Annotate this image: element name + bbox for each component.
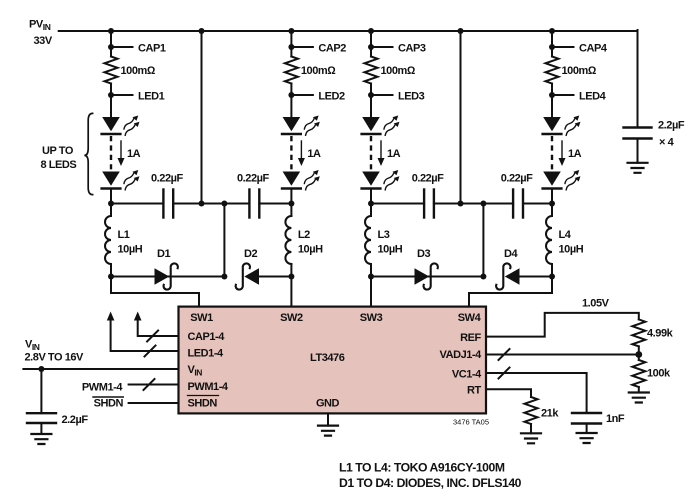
resistor R7 21k (525, 397, 560, 433)
LED string ch3 bottom (362, 168, 402, 191)
capacitor C4 0.22uF (501, 173, 533, 218)
capacitor C5 1nF (572, 413, 625, 433)
svg-text:L3: L3 (378, 229, 390, 241)
svg-text:1A: 1A (307, 148, 321, 160)
svg-text:SHDN: SHDN (94, 397, 124, 409)
junction cap row branch-left (221, 201, 227, 207)
svg-text:2.8V TO 16V: 2.8V TO 16V (25, 352, 85, 364)
node SW3 junction (368, 274, 374, 280)
wire branch left vertical (223, 204, 225, 277)
wire branch right vertical (482, 204, 484, 277)
svg-text:33V: 33V (34, 35, 53, 47)
svg-text:CAP3: CAP3 (398, 43, 426, 55)
wire ch1 column (110, 31, 112, 57)
svg-text:PWM1-4: PWM1-4 (188, 381, 229, 393)
wire ch4 column (551, 31, 553, 57)
wire VIN input (23, 368, 178, 370)
svg-text:LED4: LED4 (579, 91, 607, 103)
svg-text:LED1-4: LED1-4 (188, 348, 225, 360)
node VIN label (25, 339, 85, 364)
svg-text:L1 TO L4: TOKO A916CY-100M: L1 TO L4: TOKO A916CY-100M (339, 461, 505, 475)
wire SHDN input (93, 397, 179, 409)
wire REF to divider (486, 298, 639, 337)
node PVIN label (29, 19, 53, 48)
capacitor C2 0.22uF (237, 173, 269, 218)
svg-text:SW4: SW4 (458, 312, 482, 324)
LED string ch2 bottom (282, 168, 322, 191)
wire CAP1-4 bus (134, 312, 179, 342)
svg-text:D4: D4 (504, 248, 518, 260)
node SW2 junction (288, 274, 294, 280)
wire SW4 connection (469, 277, 552, 308)
svg-text:0.22µF: 0.22µF (151, 173, 183, 185)
node LED2 (288, 91, 345, 103)
junction rail feed-left (199, 28, 205, 34)
svg-text:100mΩ: 100mΩ (301, 65, 336, 77)
svg-text:8 LEDS: 8 LEDS (41, 159, 77, 171)
wire LED1-4 bus (107, 312, 179, 357)
ground 1nF (577, 433, 597, 443)
node LED4 (549, 91, 607, 103)
svg-text:LED1: LED1 (138, 91, 165, 103)
wire ch1 to cap row (110, 191, 112, 204)
wire RT (486, 389, 531, 397)
svg-text:RT: RT (467, 385, 481, 397)
junction cap row branch-right (480, 201, 486, 207)
ground 21k (521, 433, 541, 443)
diode D3 (415, 248, 438, 290)
svg-text:SHDN: SHDN (188, 398, 218, 410)
ground 100k (629, 393, 649, 403)
svg-text:1nF: 1nF (606, 413, 625, 425)
inductor L1 10uH (105, 204, 143, 277)
capacitor CIN 2.2uF x4 (624, 120, 685, 163)
resistor R5 4.99k (632, 319, 673, 354)
svg-text:SW2: SW2 (280, 312, 303, 324)
wire cap row left a (111, 203, 163, 205)
svg-text:L2: L2 (298, 229, 310, 241)
resistor R4 100mohm (546, 57, 597, 84)
wire VADJ1-4 (486, 349, 639, 360)
wire PVIN top rail (59, 30, 638, 32)
current arrow 1A ch4 (559, 141, 582, 166)
wire diode row left (111, 276, 224, 278)
inductor L3 10uH (365, 204, 403, 277)
svg-text:L4: L4 (559, 229, 572, 241)
svg-text:CAP1-4: CAP1-4 (188, 331, 226, 343)
wire diode row right (371, 276, 483, 278)
wire feed right vertical (460, 31, 462, 204)
wire ch2 dashed (290, 136, 292, 170)
svg-text:0.22µF: 0.22µF (412, 173, 444, 185)
svg-text:× 4: × 4 (659, 137, 675, 149)
node ch4 cap row (549, 201, 555, 207)
svg-text:UP TO: UP TO (42, 145, 74, 157)
resistor R2 100mohm (285, 57, 336, 84)
node CAP2 (288, 43, 346, 55)
junction rail ch2 (288, 28, 294, 34)
svg-text:2.2µF: 2.2µF (658, 120, 685, 132)
svg-text:D3: D3 (417, 248, 430, 260)
svg-text:LED3: LED3 (398, 91, 425, 103)
svg-text:10µH: 10µH (118, 244, 143, 256)
inductor L2 10uH (285, 204, 323, 277)
svg-text:SW1: SW1 (190, 312, 213, 324)
wire ch3 dashed (370, 136, 372, 170)
node ch3 cap row (368, 201, 374, 207)
svg-text:0.22µF: 0.22µF (501, 173, 533, 185)
svg-text:D1 TO D4: DIODES, INC. DFLS140: D1 TO D4: DIODES, INC. DFLS140 (339, 476, 522, 490)
junction diode row left (221, 274, 227, 280)
brace UP TO 8 LEDS (41, 113, 93, 194)
node CAP3 (368, 43, 426, 55)
svg-text:100k: 100k (647, 368, 671, 380)
svg-text:21k: 21k (541, 408, 559, 420)
wire input cap drop (637, 30, 639, 128)
svg-text:100mΩ: 100mΩ (121, 65, 156, 77)
junction rail ch1 (108, 28, 114, 34)
svg-text:1A: 1A (387, 148, 401, 160)
wire SW2 connection (290, 277, 292, 308)
ground GND pin (318, 426, 338, 436)
node CAP1 (108, 43, 166, 55)
diode D4 (496, 248, 519, 290)
current arrow 1A ch1 (118, 141, 141, 166)
node LED3 (368, 91, 425, 103)
current arrow 1A ch2 (298, 141, 321, 166)
node SW4 junction (549, 274, 555, 280)
svg-text:LT3476: LT3476 (310, 352, 345, 364)
svg-text:VADJ1-4: VADJ1-4 (440, 349, 483, 361)
LED string ch3 top (362, 114, 402, 137)
junction diode row right (480, 274, 486, 280)
capacitor C1 0.22uF (151, 173, 183, 218)
wire ch2 column (290, 31, 292, 57)
ground VIN cap (31, 434, 51, 444)
svg-text:100mΩ: 100mΩ (381, 65, 416, 77)
wire ch3 to cap row (370, 191, 372, 204)
node SW1 junction (108, 274, 114, 280)
svg-text:2.2µF: 2.2µF (62, 414, 89, 426)
wire VC1-4 (486, 368, 587, 414)
diode D2 (236, 248, 259, 290)
LED string ch4 top (543, 114, 583, 137)
wire cap row left b (173, 203, 249, 205)
wire ch1 dashed (110, 136, 112, 170)
inductor L4 10uH (546, 204, 584, 277)
node ch1 cap row (108, 201, 114, 207)
svg-text:0.22µF: 0.22µF (237, 173, 269, 185)
svg-text:D2: D2 (244, 248, 257, 260)
svg-text:PWM1-4: PWM1-4 (82, 381, 123, 393)
resistor R3 100mohm (365, 57, 416, 84)
svg-text:100mΩ: 100mΩ (562, 65, 597, 77)
wire GND pin (327, 413, 329, 425)
junction cap row feed-left (199, 201, 205, 207)
junction rail ch4 (549, 28, 555, 34)
node LED1 (108, 91, 165, 103)
svg-text:GND: GND (316, 398, 340, 410)
svg-text:10µH: 10µH (298, 244, 323, 256)
node ch2 cap row (288, 201, 294, 207)
svg-text:LED2: LED2 (318, 91, 345, 103)
node CAP4 (549, 43, 608, 55)
resistor R6 100k (632, 355, 671, 393)
wire cap row right a (371, 203, 424, 205)
svg-text:1A: 1A (127, 148, 141, 160)
svg-text:10µH: 10µH (559, 244, 584, 256)
wire feed left vertical (201, 31, 203, 204)
svg-text:D1: D1 (157, 248, 170, 260)
wire cap row right b (434, 203, 513, 205)
wire SW3 connection (370, 277, 372, 308)
wire ch2 to cap row (290, 191, 292, 204)
svg-text:L1: L1 (118, 229, 130, 241)
svg-text:CAP4: CAP4 (579, 43, 608, 55)
wire PWM1-4 input (82, 379, 179, 393)
junction VADJ divider (635, 351, 642, 358)
wire cap row left c (259, 203, 291, 205)
svg-text:CAP2: CAP2 (318, 43, 346, 55)
LED string ch1 top (102, 114, 142, 137)
junction VIN cap (38, 366, 44, 372)
svg-text:4.99k: 4.99k (647, 328, 674, 340)
current arrow 1A ch3 (378, 141, 401, 166)
svg-text:1A: 1A (568, 148, 582, 160)
wire ch4 dashed (551, 136, 553, 170)
junction cap row feed-right (458, 201, 464, 207)
junction rail ch3 (368, 28, 374, 34)
svg-text:3476 TA05: 3476 TA05 (453, 418, 489, 427)
wire SW1 connection (111, 277, 199, 308)
ground input cap (628, 163, 648, 173)
svg-text:VC1-4: VC1-4 (452, 369, 482, 381)
wire ch3 column (370, 31, 372, 57)
capacitor C3 0.22uF (412, 173, 444, 218)
svg-text:CAP1: CAP1 (138, 43, 166, 55)
LED string ch2 top (282, 114, 322, 137)
LED string ch1 bottom (102, 168, 142, 191)
op-amp U1 LT3476 body (179, 307, 487, 414)
wire ch4 to cap row (551, 191, 553, 204)
svg-text:SW3: SW3 (360, 312, 383, 324)
capacitor CVIN 2.2uF (27, 369, 88, 434)
junction rail feed-right (458, 28, 464, 34)
svg-text:10µH: 10µH (378, 244, 403, 256)
LED string ch4 bottom (543, 168, 583, 191)
svg-text:1.05V: 1.05V (582, 298, 610, 310)
resistor R1 100mohm (105, 57, 156, 84)
pin SHDN (188, 396, 219, 410)
wire diode row left end (259, 276, 292, 278)
diode D1 (155, 248, 178, 290)
svg-text:REF: REF (460, 332, 481, 344)
wire diode row right end (519, 276, 552, 278)
wire cap row right c (523, 203, 552, 205)
